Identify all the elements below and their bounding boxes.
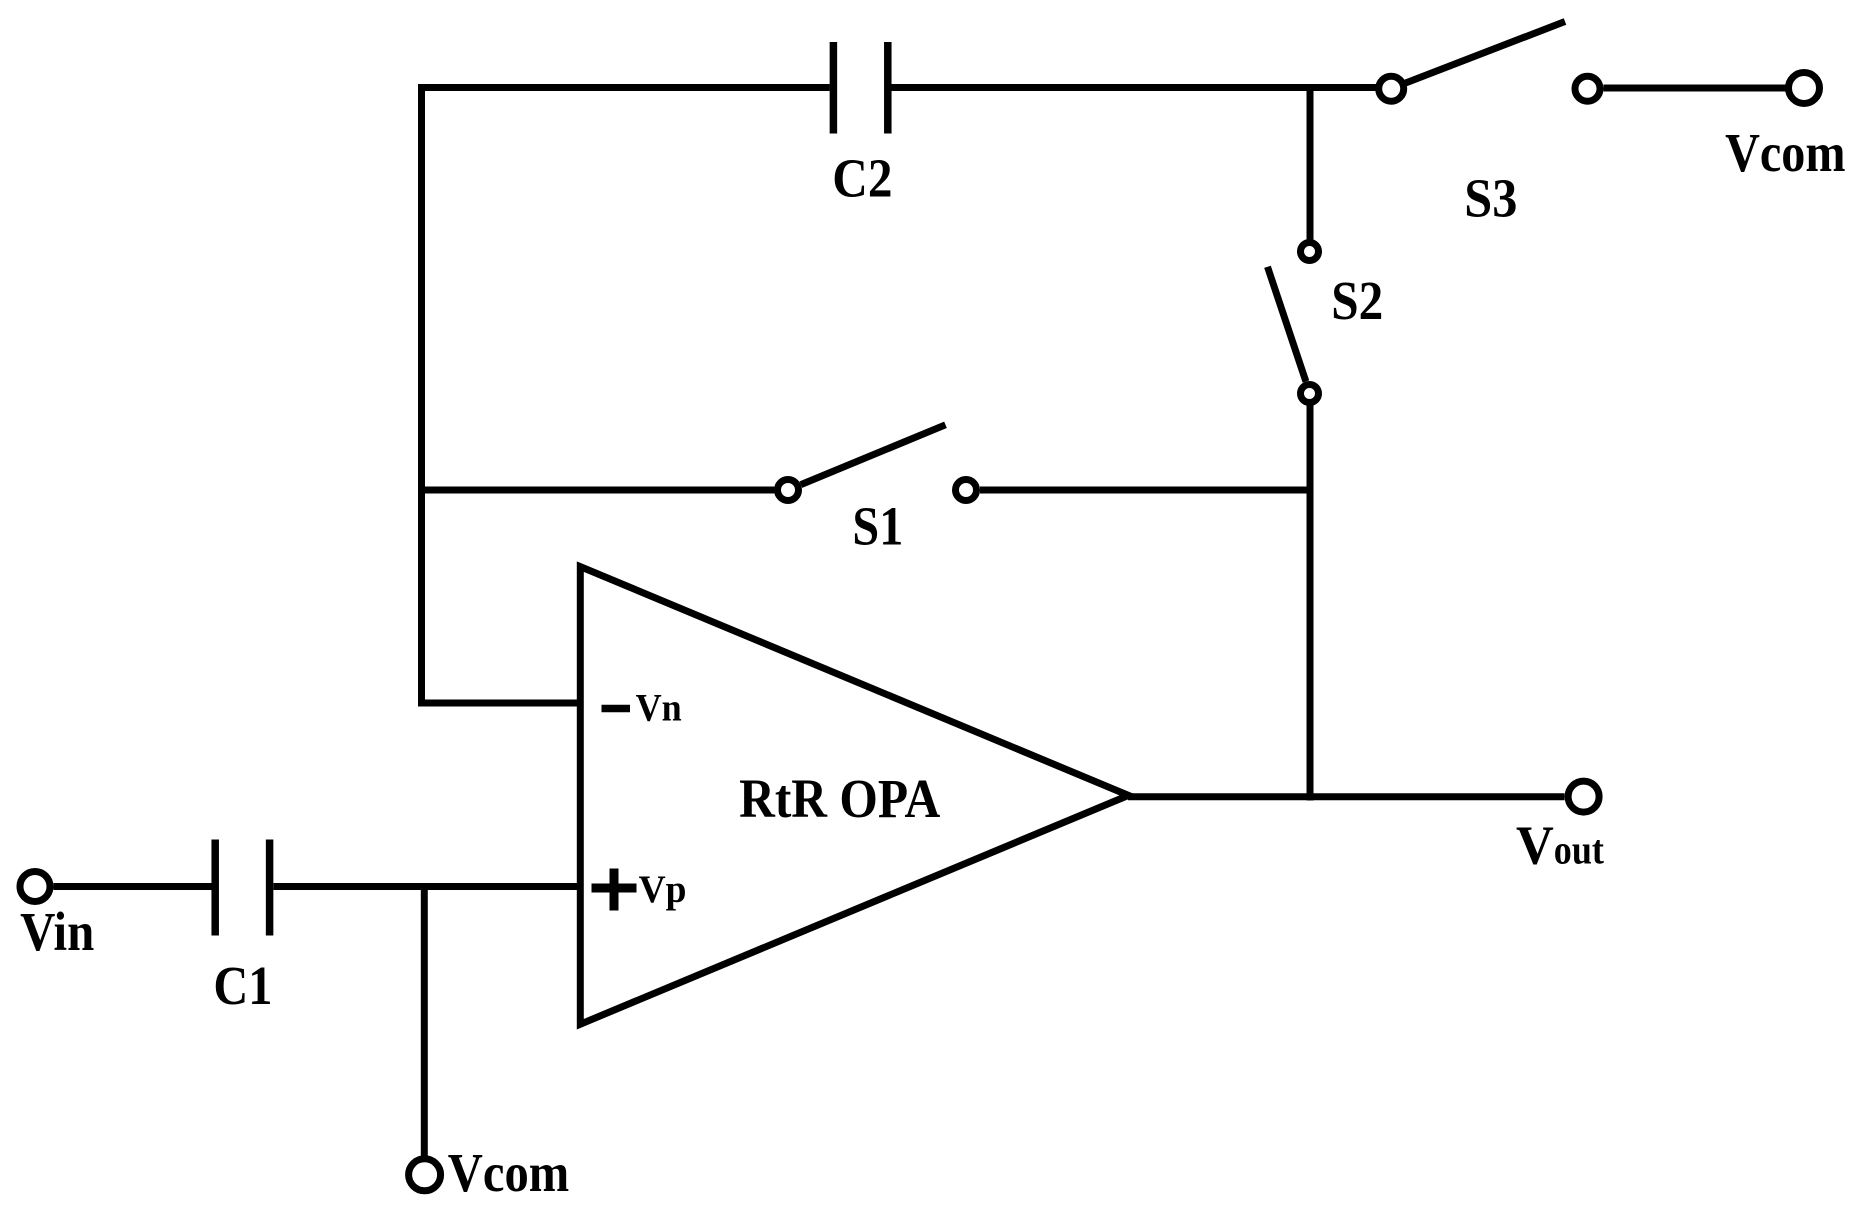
svg-text:C2: C2 [832, 148, 892, 209]
svg-text:Vcom: Vcom [448, 1143, 569, 1204]
svg-text:Vcom: Vcom [1725, 123, 1845, 184]
svg-text:Vp: Vp [639, 867, 687, 911]
svg-text:Vin: Vin [20, 902, 94, 963]
svg-text:C1: C1 [213, 956, 272, 1017]
svg-text:S2: S2 [1331, 271, 1383, 332]
svg-text:RtR OPA: RtR OPA [739, 769, 940, 830]
svg-text:S3: S3 [1464, 168, 1517, 229]
svg-text:S1: S1 [852, 496, 903, 557]
svg-text:Vn: Vn [636, 685, 682, 729]
